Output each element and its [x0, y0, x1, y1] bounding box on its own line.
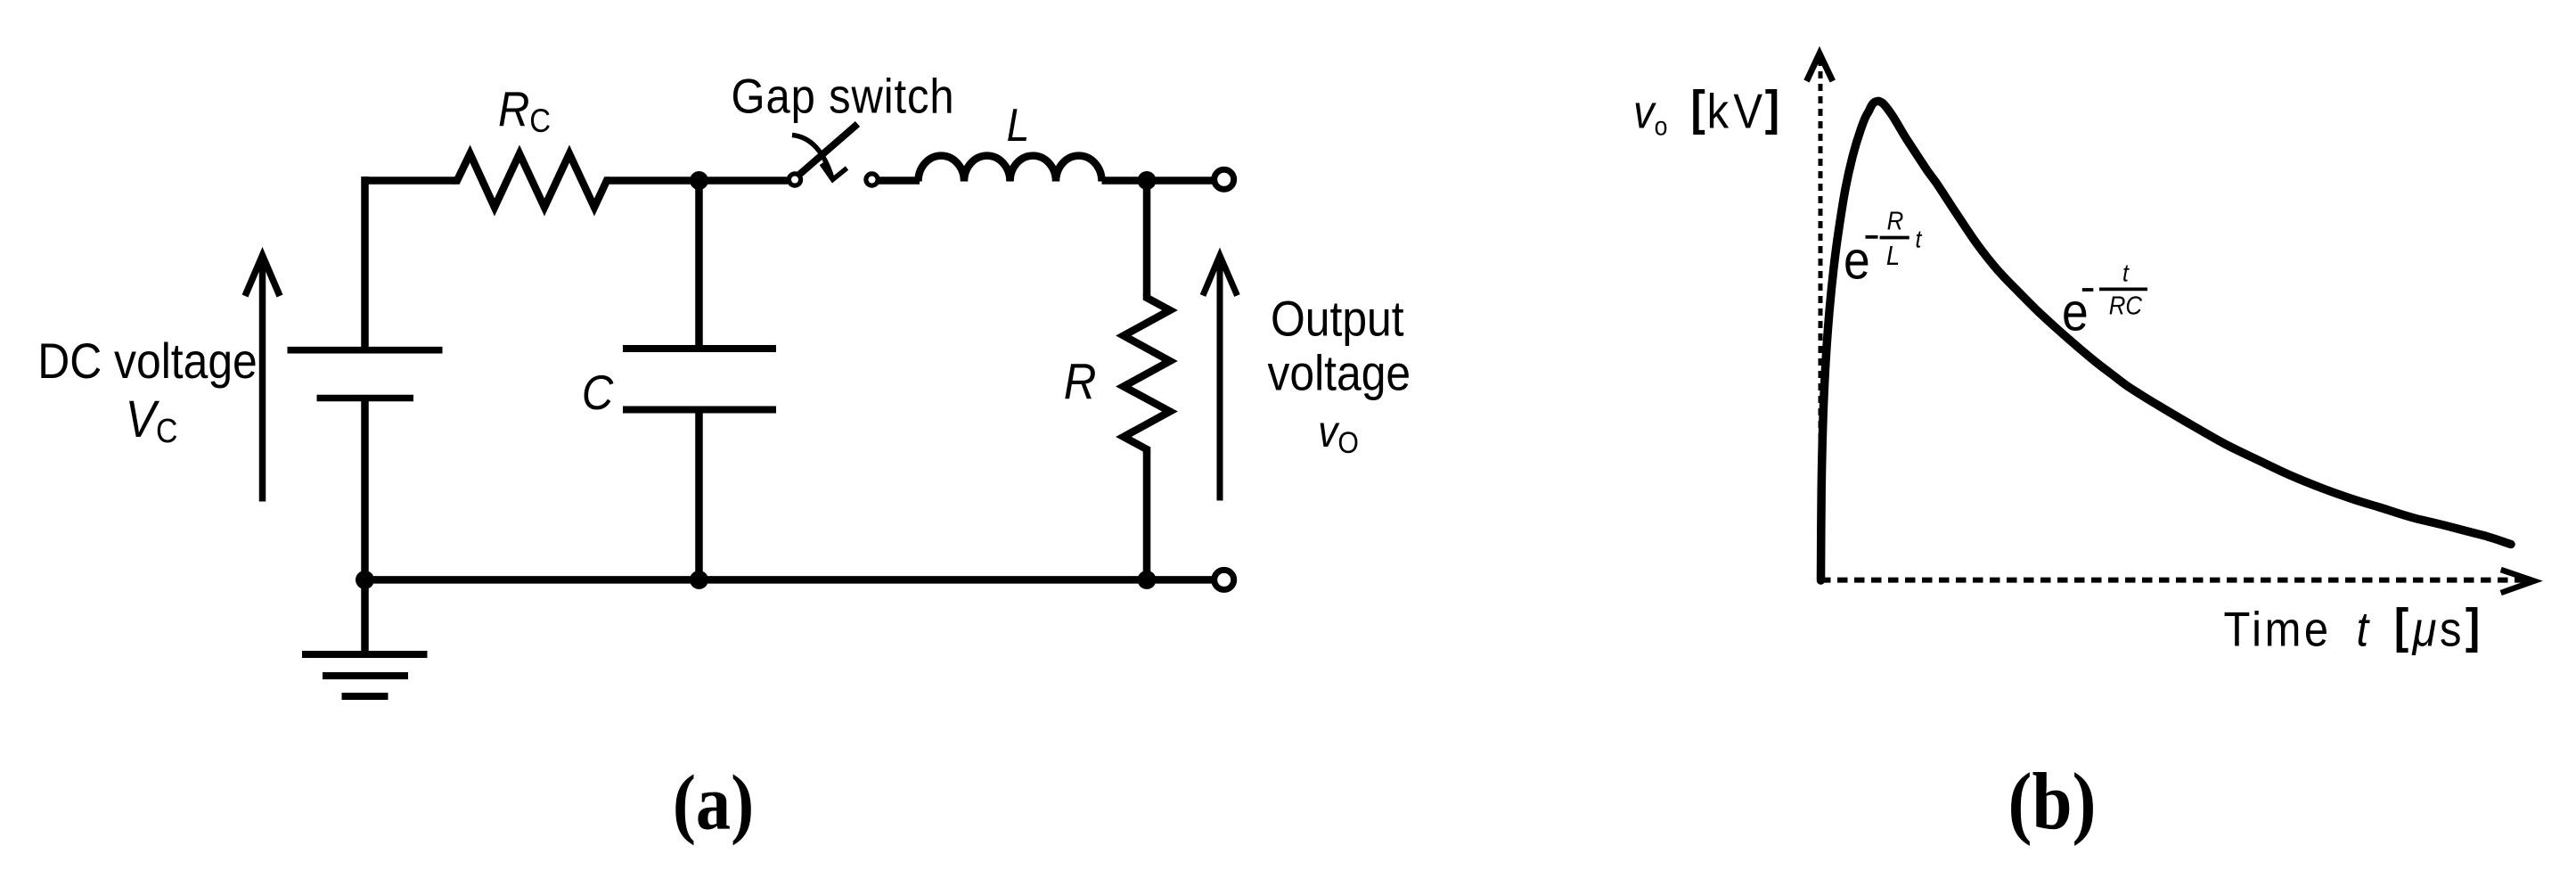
svg-text:Output: Output: [1271, 292, 1404, 347]
svg-text:R: R: [1064, 353, 1097, 409]
DC voltage arrowhead: [245, 256, 280, 297]
label e^-t/RC : minus sign: [2082, 288, 2094, 292]
wire: left vertical battery top lead: [361, 177, 369, 347]
graph horizontal axis dashed: [1820, 578, 2531, 583]
svg-text:[kV]: [kV]: [1691, 81, 1780, 139]
output voltage arrowhead: [1203, 256, 1238, 296]
resistor R zigzag: [1124, 294, 1170, 453]
wire: node A to gap switch left terminal: [699, 177, 789, 185]
wire: node B to output top terminal: [1147, 177, 1214, 185]
output top terminal circle: [1214, 169, 1234, 189]
svg-text:voltage: voltage: [1267, 346, 1411, 401]
wire: RC to node A: [607, 177, 699, 185]
svg-text:R: R: [1887, 206, 1904, 235]
wire: capacitor C bottom lead: [695, 410, 703, 580]
graph horizontal axis arrowhead: [2501, 570, 2534, 593]
svg-text:vO: vO: [1318, 407, 1359, 460]
bottom-left junction dot: [356, 571, 374, 589]
resistor RC zigzag: [454, 154, 609, 208]
DC voltage arrow shaft: [259, 260, 266, 502]
svg-text:vo: vo: [1633, 86, 1667, 142]
wire: capacitor C top lead: [695, 181, 703, 349]
wire: bottom rail: [365, 576, 1215, 584]
svg-text:t: t: [2122, 259, 2130, 287]
bottom-right junction dot: [1138, 571, 1157, 589]
graph vertical axis arrowhead: [1807, 53, 1833, 81]
ground bar 1: [302, 651, 428, 658]
svg-text:t: t: [1916, 225, 1923, 253]
label e^-R/L t : minus sign: [1866, 235, 1878, 239]
gap switch arrowhead: [822, 164, 847, 180]
inductor L coil arcs: [919, 156, 1102, 182]
capacitor C top plate: [623, 345, 776, 352]
svg-text:Time t [μs]: Time t [μs]: [2224, 599, 2483, 657]
output pulse curve: [1821, 101, 2512, 580]
node B junction dot: [1138, 171, 1157, 190]
wire: resistor R bottom lead: [1143, 451, 1151, 579]
wire: resistor R top lead: [1143, 181, 1151, 297]
ground bar 2: [323, 672, 408, 679]
svg-text:C: C: [582, 366, 614, 420]
svg-text:(b): (b): [2008, 756, 2097, 846]
gap switch closing arc arrow: [792, 136, 832, 179]
bottom-middle junction dot: [690, 571, 708, 589]
battery VC short plate: [317, 395, 414, 402]
gap switch left terminal circle: [789, 174, 800, 185]
label e^-t/RC : fraction bar: [2099, 287, 2147, 291]
svg-text:e: e: [1844, 232, 1870, 292]
ground bar 3: [342, 693, 388, 700]
wire: switch to inductor L: [878, 177, 920, 185]
svg-text:RC: RC: [498, 82, 551, 139]
svg-text:e: e: [2062, 283, 2089, 343]
output bottom terminal circle: [1214, 570, 1234, 589]
ground stem: [361, 579, 369, 654]
svg-text:RC: RC: [2109, 291, 2142, 320]
svg-text:Gap switch: Gap switch: [732, 70, 955, 124]
svg-text:VC: VC: [126, 390, 178, 449]
wire: battery bottom lead: [361, 399, 369, 580]
battery VC long plate: [288, 347, 443, 354]
output voltage arrow shaft: [1217, 260, 1223, 501]
wire: inductor to node B: [1102, 177, 1148, 185]
capacitor C bottom plate: [623, 407, 776, 414]
node A junction dot: [690, 171, 708, 190]
svg-text:DC voltage: DC voltage: [37, 333, 258, 389]
svg-text:(a): (a): [673, 760, 754, 846]
gap switch right terminal circle: [866, 174, 878, 185]
svg-text:L: L: [1886, 240, 1900, 271]
label e^-R/L t : fraction bar: [1880, 236, 1910, 240]
graph vertical axis dashed: [1819, 55, 1823, 578]
gap switch blade: [797, 124, 858, 177]
svg-text:L: L: [1007, 100, 1030, 152]
wire: top-left horizontal from battery top to resistor RC: [365, 177, 456, 185]
